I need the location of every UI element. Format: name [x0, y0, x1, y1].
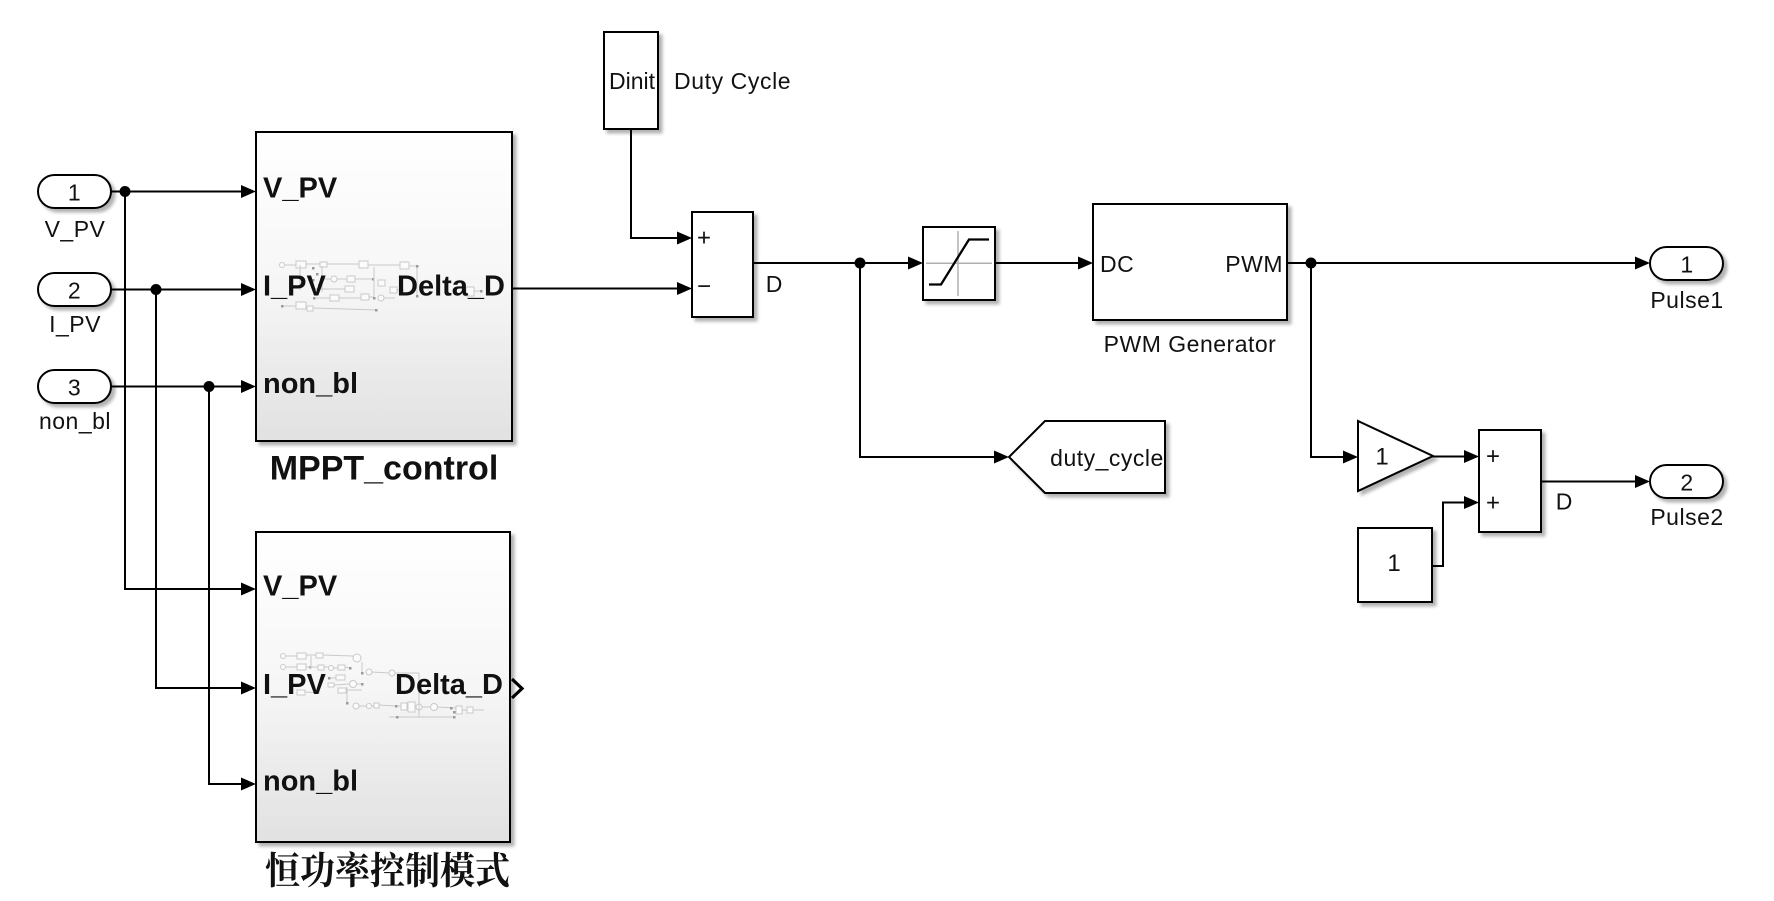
svg-text:1: 1 [1680, 252, 1693, 278]
input port 2 I_PV [38, 273, 111, 306]
saturation block [923, 227, 995, 300]
svg-text:I_PV: I_PV [263, 669, 327, 701]
subsystem constant-power control mode [256, 532, 510, 842]
svg-text:PWM Generator: PWM Generator [1104, 331, 1277, 357]
junction node on V_PV wire [120, 186, 131, 197]
svg-text:V_PV: V_PV [263, 173, 338, 205]
svg-text:I_PV: I_PV [49, 311, 101, 337]
svg-text:1: 1 [1387, 550, 1400, 577]
subsystem MPPT_control [256, 132, 512, 441]
ghost internal diagram upper [280, 261, 483, 312]
PWM Generator block [1093, 204, 1287, 320]
svg-text:+: + [1486, 490, 1500, 517]
svg-text:I_PV: I_PV [263, 271, 327, 303]
svg-text:duty_cycle: duty_cycle [1050, 445, 1164, 471]
wire D down to duty_cycle goto tag [860, 263, 1002, 457]
output port 2 Pulse2 [1650, 465, 1723, 498]
output port 1 Pulse1 [1650, 247, 1723, 280]
wire V_PV down to lower block [125, 192, 249, 590]
svg-text:1: 1 [68, 180, 81, 206]
svg-text:non_bl: non_bl [263, 368, 358, 400]
svg-text:3: 3 [68, 375, 81, 401]
svg-text:2: 2 [1680, 470, 1693, 496]
wire PWM down to gain [1311, 263, 1351, 457]
wire Sum2 to Pulse2 [1541, 481, 1642, 483]
input port 3 non_bl [38, 370, 111, 403]
svg-text:non_bl: non_bl [39, 408, 111, 434]
svg-text:Duty Cycle: Duty Cycle [674, 68, 791, 94]
svg-text:2: 2 [68, 278, 81, 304]
constant Dinit [604, 32, 658, 129]
label 恒功率控制模式 (CJK glyph outlines) [266, 851, 509, 887]
junction node on non_bl wire [204, 381, 215, 392]
goto tag duty_cycle [1009, 421, 1165, 493]
wire Constant1 to Sum2 second + input [1432, 503, 1470, 567]
svg-text:+: + [1486, 443, 1500, 470]
wire MPPT Delta_D to Sum1 minus input [512, 288, 685, 290]
svg-text:+: + [697, 225, 711, 252]
svg-text:−: − [697, 273, 711, 300]
svg-text:Delta_D: Delta_D [395, 669, 503, 701]
constant block 1 [1358, 528, 1432, 602]
gain block value 1 [1358, 421, 1433, 491]
svg-text:DC: DC [1100, 251, 1134, 277]
wire Sum1 to Saturation [752, 262, 916, 264]
junction node D [855, 258, 866, 269]
unconnected output chevron of lower block [512, 679, 522, 698]
svg-text:PWM: PWM [1225, 251, 1283, 277]
sum block Sum1 [692, 212, 753, 317]
wire PWM to Pulse1 [1287, 262, 1643, 264]
input port 1 V_PV [38, 175, 111, 208]
svg-text:MPPT_control: MPPT_control [270, 450, 499, 488]
junction node on I_PV wire [151, 284, 162, 295]
wire In3 to MPPT non_bl [111, 386, 249, 388]
svg-text:Pulse1: Pulse1 [1650, 287, 1723, 313]
ghost internal diagram lower [281, 653, 485, 719]
svg-text:D: D [1556, 489, 1573, 515]
sum block Sum2 [1479, 430, 1541, 532]
svg-text:1: 1 [1375, 444, 1388, 471]
junction node PWM output [1306, 258, 1317, 269]
svg-text:Pulse2: Pulse2 [1650, 504, 1723, 530]
wire non_bl down to lower block [209, 387, 249, 785]
svg-text:V_PV: V_PV [45, 216, 106, 242]
svg-text:V_PV: V_PV [263, 571, 338, 603]
svg-text:Delta_D: Delta_D [397, 271, 505, 303]
wire In2 to MPPT I_PV [111, 289, 249, 291]
wire Saturation to PWM Generator [996, 262, 1086, 264]
svg-text:Dinit: Dinit [609, 68, 656, 94]
wire Gain to Sum2 [1432, 456, 1470, 458]
wire I_PV down to lower block [156, 290, 249, 689]
svg-text:non_bl: non_bl [263, 766, 358, 798]
wire In1 to MPPT V_PV [111, 191, 249, 193]
svg-text:D: D [766, 271, 783, 297]
wire Dinit to Sum1 + input [631, 129, 685, 238]
